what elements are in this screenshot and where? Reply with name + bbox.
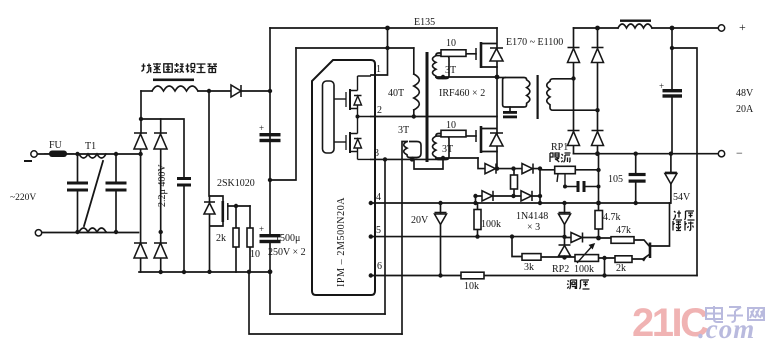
svg-text:2k: 2k — [616, 263, 626, 274]
svg-text:1: 1 — [376, 64, 381, 75]
svg-text:21IC: 21IC — [632, 301, 708, 345]
svg-text:−: − — [736, 146, 743, 160]
svg-text:2SK1020: 2SK1020 — [217, 178, 255, 189]
svg-text:E135: E135 — [414, 17, 435, 28]
svg-text:48V: 48V — [736, 88, 754, 99]
svg-text:5: 5 — [376, 225, 381, 236]
svg-text:10: 10 — [446, 120, 456, 131]
svg-text:10: 10 — [446, 38, 456, 49]
svg-text:4.7k: 4.7k — [603, 212, 621, 223]
svg-text:2: 2 — [377, 105, 382, 116]
svg-text:250V × 2: 250V × 2 — [268, 247, 306, 258]
svg-text:54V: 54V — [673, 192, 691, 203]
svg-text:~220V: ~220V — [10, 193, 36, 203]
svg-text:T1: T1 — [85, 141, 96, 152]
svg-text:+: + — [259, 123, 264, 133]
svg-text:3T: 3T — [442, 144, 453, 155]
svg-text:+: + — [739, 20, 746, 34]
svg-text:1N4148: 1N4148 — [516, 211, 548, 222]
svg-text:2k: 2k — [216, 233, 226, 244]
svg-text:IRF460 × 2: IRF460 × 2 — [439, 88, 485, 99]
svg-text:10: 10 — [250, 249, 260, 260]
svg-text:3k: 3k — [524, 262, 534, 273]
svg-text:3: 3 — [374, 148, 379, 159]
svg-text:2.2μ 400V: 2.2μ 400V — [157, 164, 168, 207]
svg-text:100k: 100k — [481, 219, 501, 230]
svg-text:E170 ~ E1100: E170 ~ E1100 — [506, 37, 563, 48]
svg-text:6: 6 — [377, 261, 382, 272]
svg-text:10k: 10k — [464, 281, 479, 292]
svg-text:105: 105 — [608, 174, 623, 185]
svg-text:20V: 20V — [411, 215, 429, 226]
svg-text:RP1: RP1 — [551, 142, 568, 153]
svg-text:100k: 100k — [574, 264, 594, 275]
svg-text:20A: 20A — [736, 104, 754, 115]
svg-text:40T: 40T — [388, 88, 404, 99]
svg-text:+: + — [259, 224, 264, 234]
svg-text:3T: 3T — [445, 65, 456, 76]
svg-text:1500μ: 1500μ — [275, 233, 300, 244]
svg-text:RP2: RP2 — [552, 264, 569, 275]
svg-text:× 3: × 3 — [527, 222, 540, 233]
svg-text:+: + — [659, 81, 664, 91]
svg-text:47k: 47k — [616, 225, 631, 236]
svg-text:3T: 3T — [398, 125, 409, 136]
svg-text:FU: FU — [49, 140, 63, 151]
svg-text:IPM – 2M500N20A: IPM – 2M500N20A — [336, 197, 347, 287]
svg-text:4: 4 — [376, 192, 381, 203]
